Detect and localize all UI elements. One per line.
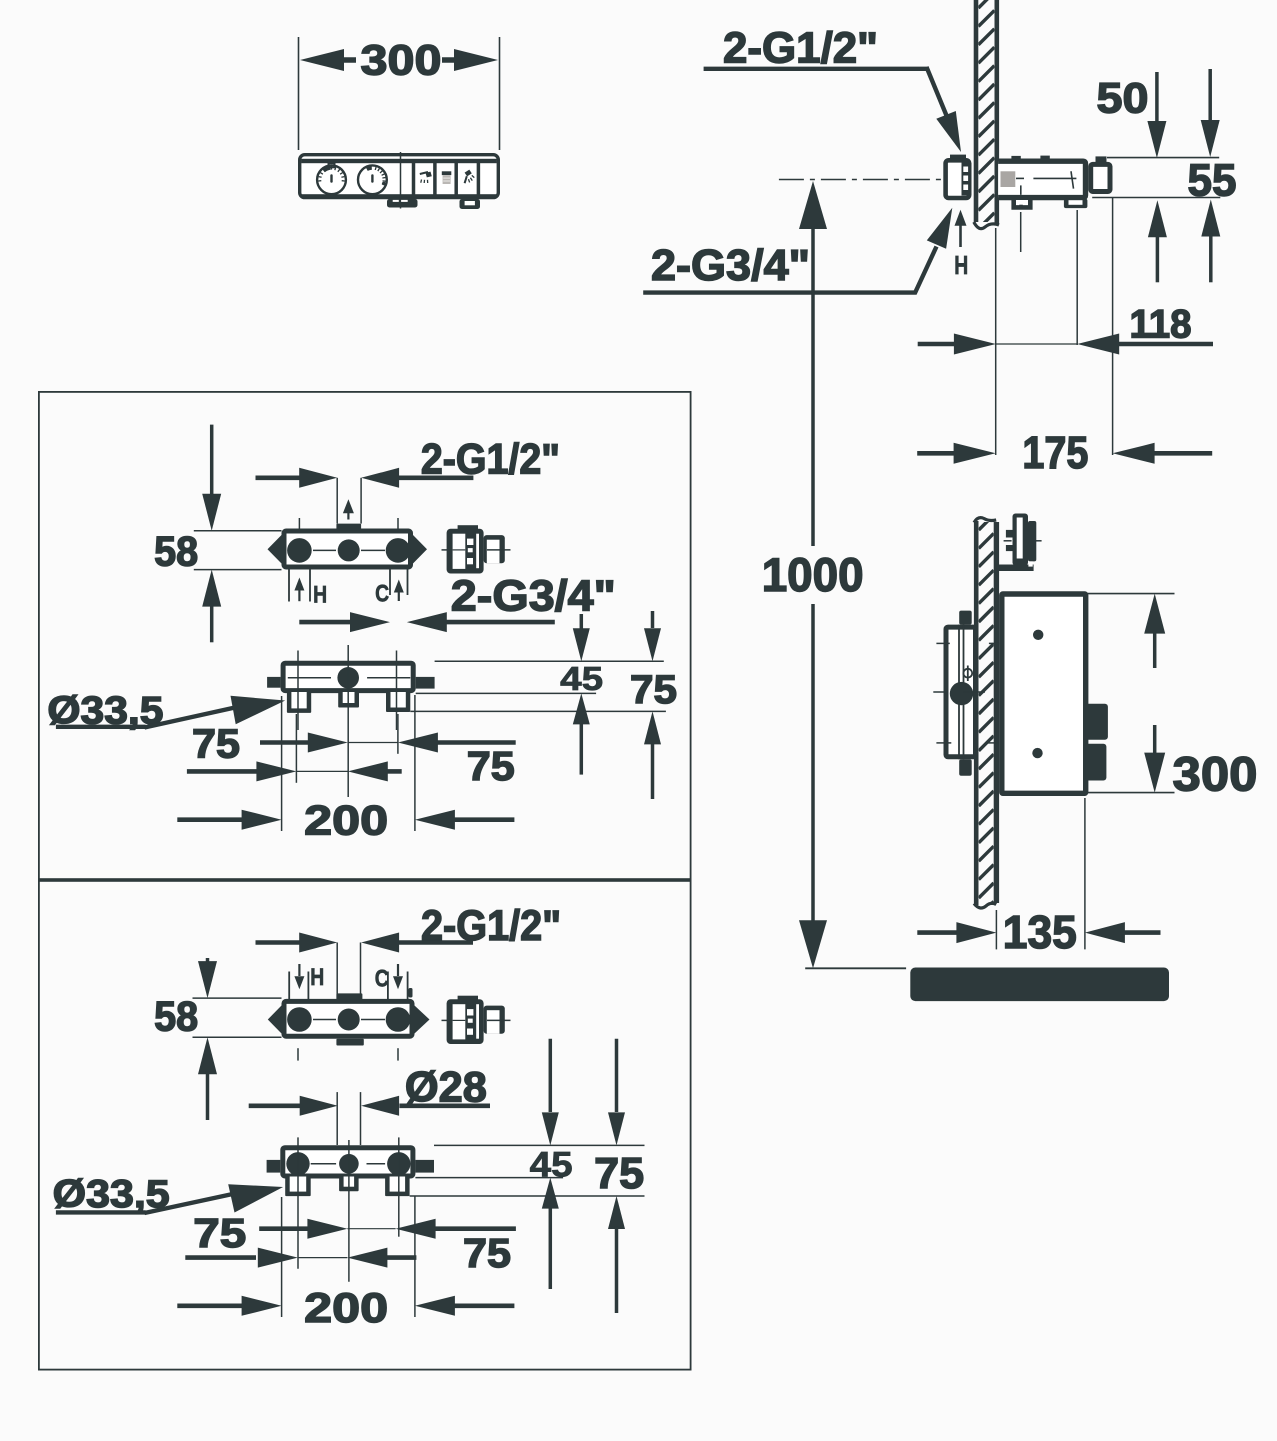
b2 dia28 ext a (336, 1092, 338, 1145)
svg-text:C: C (375, 581, 389, 608)
b1 dia33 arrowhead (231, 696, 286, 725)
b1 bracket left point (268, 535, 282, 564)
b1 fitting window (453, 534, 466, 569)
b2 dim28 line (249, 1104, 300, 1109)
b2 dim58 arrow down (206, 958, 210, 962)
b2 ext bracket left (281, 1197, 283, 1317)
b2 dim75 arrow down (615, 1039, 619, 1112)
leader 2-G3/4 (643, 290, 916, 294)
svg-text:2-G3/4": 2-G3/4" (651, 242, 810, 290)
svg-text:200: 200 (304, 797, 388, 844)
b2 front bracket body (283, 1148, 413, 1176)
b2 bracket left point (268, 1006, 282, 1034)
b1 fitting slot 3 (467, 558, 473, 564)
svg-text:H: H (310, 964, 324, 991)
svg-text:118: 118 (1130, 303, 1192, 347)
svg-text:75: 75 (630, 668, 677, 712)
panel divider 3 (454, 162, 458, 195)
b1 G12 ext b (360, 478, 362, 524)
b1 dim58 arrow up (202, 570, 221, 607)
b1 fitting slot 1 (467, 539, 473, 545)
dial 2 filled segment (367, 168, 372, 169)
b2 dia33 leader (56, 1210, 146, 1214)
ext line side wall face (995, 910, 997, 949)
dial 1 scale ticks (342, 180, 345, 182)
panel tab right (460, 199, 481, 209)
ext line wall surface (995, 228, 997, 455)
b2 front nub right (415, 1160, 434, 1173)
b2 H stub lines (288, 972, 290, 1000)
b2 fitting window (453, 1004, 466, 1039)
b1 dim G12 line (256, 475, 301, 480)
b2 C dash below (397, 1048, 399, 1060)
dim 300side ext top (1085, 593, 1174, 595)
svg-text:2-G3/4": 2-G3/4" (451, 573, 616, 621)
ext line side panel face (1084, 798, 1086, 949)
b1 bracket body (284, 531, 411, 567)
b1 dim200 line (177, 817, 244, 822)
svg-text:75: 75 (463, 1230, 511, 1276)
b2 H arrow down (298, 964, 300, 976)
valve knob top notch (1096, 156, 1107, 163)
dial 2 scale ticks (382, 184, 385, 185)
b2 fitting top tab (458, 996, 478, 1000)
ext line valve feature (1076, 210, 1078, 345)
side wall torn bottom (974, 903, 996, 908)
dim 300side ext bottom (1085, 792, 1174, 794)
valve interior tick (1020, 185, 1022, 194)
leader 2-G3/4 arrowhead (927, 208, 953, 249)
b1 dim75b line (187, 769, 258, 774)
b1 ext bottom edge (416, 692, 596, 694)
icon hand shower (465, 170, 472, 177)
dim 55 arrow b (1201, 200, 1220, 237)
dim 300side arrow up (1144, 594, 1165, 634)
b2 front tab 2 (339, 1177, 359, 1192)
dim 1000 line lower (811, 604, 815, 922)
supply fitting ladder (962, 163, 971, 196)
b2 dim75 arrow up (608, 1196, 625, 1229)
b2 bracket bottom nub (336, 1039, 363, 1046)
wall-bracket top tab (959, 611, 972, 625)
valve tab1 centreline (1020, 212, 1022, 252)
b1 fitting top tab (458, 525, 478, 529)
top fitting centreline (1004, 540, 1012, 542)
floor slab (910, 968, 1169, 1002)
leader 2-G1/2 (704, 67, 929, 71)
panel centre line (400, 152, 402, 209)
b1 fitting slot 2 (468, 548, 473, 552)
top fitting arm (996, 565, 1033, 572)
svg-text:75: 75 (467, 743, 515, 789)
b2 front port H (286, 1152, 309, 1175)
b1 H tick above (298, 518, 300, 529)
b2 dim G12 line (256, 940, 301, 945)
b2 front tab 3 (385, 1177, 410, 1197)
b2 ext bracket right (414, 1196, 416, 1317)
svg-text:H: H (313, 582, 327, 609)
b1 C stub lines (389, 570, 391, 596)
b1 dim58 ext bottom (194, 569, 282, 571)
b1 ext tab edge (410, 710, 666, 712)
dim 55 ext bottom (1092, 197, 1220, 199)
b2 bracket right point (415, 1006, 430, 1034)
b2 fitting centreline (442, 1019, 448, 1021)
icon overhead shower (420, 172, 428, 174)
b1 dim75 arrow down (651, 611, 655, 628)
svg-text:200: 200 (304, 1284, 388, 1331)
b1 ext H below (295, 714, 297, 783)
b2 dim58 ext bottom (193, 1036, 282, 1038)
dial 1 knob notch (328, 163, 336, 169)
b2 front centreline (311, 1163, 336, 1165)
b2 fitting slot 2 (468, 1019, 473, 1023)
dim 55 arrow a (1148, 200, 1167, 237)
b1 dim75 arrow up (644, 711, 661, 744)
svg-text:75: 75 (193, 1210, 246, 1256)
b1 bracket right point (413, 535, 427, 564)
valve interior centreline (1016, 177, 1024, 179)
b2 front port mid (339, 1154, 359, 1174)
b1 bracket top nub (336, 524, 361, 531)
side panel tab upper (1085, 704, 1108, 740)
svg-text:H: H (954, 252, 968, 280)
b1 port line C (396, 651, 398, 731)
arrow H hot inlet (955, 210, 967, 226)
b1 front port mid (337, 667, 359, 689)
side wall torn top (974, 518, 996, 523)
b2 ext tab edge (410, 1195, 645, 1197)
b2 G12 stub b (360, 943, 362, 1000)
b1 fitting body (447, 529, 484, 574)
b1 dia33 leader (56, 725, 146, 729)
b2 C stub lines (387, 972, 389, 1000)
icon rain head (442, 171, 452, 175)
b2 dia28 ext b (360, 1092, 362, 1145)
dim 1000 line upper (799, 181, 827, 229)
valve top bumps (1011, 156, 1020, 160)
panel divider 2 (433, 162, 437, 195)
wall-bracket bottom tab (959, 759, 972, 776)
b2 dim58 arrow up (198, 1037, 217, 1074)
b2 front port C (387, 1152, 410, 1175)
valve tab 2 (1064, 199, 1088, 208)
b1 front bracket body (283, 663, 413, 690)
b2 front tab 1 (285, 1177, 311, 1197)
b2 dim200 line (177, 1304, 244, 1309)
top fitting nut (1028, 521, 1036, 561)
svg-text:1000: 1000 (762, 548, 864, 601)
dim 175 line (917, 451, 954, 456)
wall edge left (974, 0, 979, 222)
side centreline bottom port (936, 742, 951, 744)
b2 port line C (398, 1137, 400, 1236)
b1 dim58 ext top (194, 530, 282, 532)
valve spacer gray (1001, 171, 1016, 187)
dial 2 pointer (371, 174, 373, 183)
b1 fitting centreline (442, 549, 448, 551)
b1 C arrow up (394, 580, 404, 593)
valve body (998, 161, 1085, 197)
b1 dim45 arrow up (573, 693, 590, 724)
b1 front nub left (267, 677, 281, 688)
svg-text:45: 45 (560, 660, 603, 697)
b2 port line mid (348, 1140, 350, 1282)
b1 front tab 1 (287, 692, 311, 713)
top fitting bracket (1013, 514, 1029, 566)
b2 dim75b line (185, 1255, 256, 1260)
side wall edge left (974, 521, 979, 905)
valve tab 1 (1014, 200, 1031, 207)
svg-text:300: 300 (361, 38, 442, 85)
b1 port mid (338, 539, 360, 561)
b2 G12 stub a (336, 943, 338, 1000)
dial 2 low blob (382, 182, 386, 186)
b2 dim75a line (259, 1226, 308, 1231)
dim 118 line (918, 342, 955, 347)
wall torn bottom end (974, 222, 999, 229)
detail box 2 frame (39, 881, 691, 1370)
b2 dim45 arrow up (542, 1178, 559, 1209)
b1 ext C below (397, 714, 399, 754)
b1 dim75a line (260, 740, 308, 745)
svg-text:175: 175 (1022, 427, 1088, 478)
b1 port line H (297, 651, 299, 731)
side panel tab lower (1085, 744, 1106, 781)
svg-text:135: 135 (1003, 906, 1077, 958)
b1 fitting nub (484, 535, 505, 563)
b2 fitting slot 1 (467, 1009, 473, 1015)
b2 fitting nub (484, 1006, 505, 1034)
panel inner top band (301, 159, 497, 163)
b1 ext bracket right (414, 695, 416, 831)
detail box 1 frame (39, 392, 691, 879)
b2 bracket top nub (336, 993, 362, 999)
dim 300 arrow right (454, 49, 498, 71)
b2 port line H (297, 1137, 299, 1268)
wall-bracket supply circle (950, 682, 973, 705)
b1 dim45 arrow down (580, 614, 584, 630)
b1 outlet arrow up (343, 499, 354, 513)
b1 fitting slit (476, 534, 479, 569)
b1 front centreline (288, 677, 331, 679)
supply fitting body (946, 160, 970, 198)
b2 port H (287, 1007, 312, 1032)
panel divider 4 (477, 162, 481, 195)
b2 port C (386, 1007, 411, 1032)
b2 bracket centreline (313, 1019, 336, 1021)
svg-text:300: 300 (1173, 749, 1258, 802)
floor line (805, 967, 906, 969)
dim 50 arrow a (1155, 72, 1159, 125)
wall-bracket outer frame (946, 627, 976, 757)
b1 H stub lines (288, 570, 290, 602)
b2 H dash below (297, 1048, 299, 1060)
svg-text:75: 75 (594, 1149, 644, 1198)
dim 300side arrow down (1153, 725, 1157, 756)
b1 G12 ext a (336, 478, 338, 524)
centreline horizontal (779, 179, 944, 181)
side panel screw top (1033, 630, 1043, 640)
panel tab left (387, 199, 418, 208)
b1 bracket centreline (313, 549, 336, 551)
svg-text:C: C (375, 966, 389, 993)
wall-bracket inner rails (958, 625, 960, 760)
dim 300 arrow left (300, 49, 344, 71)
leader 2-G1/2 arrowhead (936, 111, 961, 152)
b1 front nub right (416, 677, 435, 689)
dim 135 line (917, 930, 956, 935)
b1 H arrow up (294, 578, 304, 591)
svg-text:58: 58 (154, 993, 198, 1039)
b2 ext bottom edge (415, 1177, 563, 1179)
b1 C tick above (397, 518, 399, 529)
svg-text:2-G1/2": 2-G1/2" (723, 25, 878, 73)
b2 C side mark (409, 988, 413, 998)
b1 ext bracket left (281, 696, 283, 831)
b1 dim58 arrow down (210, 425, 214, 495)
b2 front nub left (267, 1160, 281, 1173)
side panel screw bottom (1032, 748, 1042, 758)
svg-text:75: 75 (192, 721, 240, 767)
b1 front tab 2 (338, 692, 359, 708)
b1 port line mid (347, 645, 349, 797)
dim 50 arrow b (1208, 69, 1212, 122)
svg-text:45: 45 (530, 1146, 573, 1185)
top fitting notch (1028, 561, 1032, 566)
dim 300 extension line right (499, 37, 501, 150)
b2 fitting body (447, 999, 484, 1044)
panel bottom band (301, 194, 497, 198)
b2 C arrow down (397, 964, 399, 976)
supply fitting top step (950, 155, 966, 159)
panel body outline (300, 155, 499, 198)
b2 dia33 arrowhead (228, 1184, 283, 1212)
valve lever line (1071, 171, 1074, 188)
b2 dim58 ext top (193, 997, 282, 999)
b2 fitting slit (476, 1004, 479, 1038)
b2 port mid (338, 1009, 360, 1031)
dial 1 pointer (330, 174, 332, 183)
b2 bracket body (284, 1001, 412, 1036)
dial 2 outer circle (358, 165, 387, 194)
panel divider 1 (412, 162, 416, 195)
b1 port H (287, 538, 312, 563)
wall edge right (994, 0, 999, 224)
b2 ext top edge (434, 1144, 645, 1146)
side centreline top port (936, 642, 949, 644)
b1 front tab 3 (386, 692, 410, 712)
ext line valve end (1112, 197, 1114, 455)
b1 dim G34 line (299, 620, 350, 625)
dial 1 filled segment (324, 168, 331, 171)
side centreline mid port (933, 691, 946, 693)
side wall hatching (979, 515, 994, 935)
top fitting tab lower (1006, 545, 1013, 551)
b1 port C (386, 538, 411, 563)
b1 ext top edge (435, 660, 664, 662)
wall hatching upper (978, 0, 994, 266)
side panel box (1002, 594, 1086, 793)
dim 300 extension line left (298, 37, 300, 150)
valve knob (1091, 164, 1110, 191)
dim 55 ext top (1107, 157, 1219, 159)
b2 dim45 arrow down (549, 1039, 553, 1112)
b2 fitting slot 3 (467, 1029, 473, 1035)
svg-text:50: 50 (1097, 74, 1149, 122)
dial 1 outer circle (317, 165, 346, 194)
top fitting tab upper (1006, 530, 1013, 538)
wall-bracket valve stem (963, 669, 972, 678)
side wall edge right (994, 522, 999, 903)
svg-text:58: 58 (154, 529, 198, 575)
